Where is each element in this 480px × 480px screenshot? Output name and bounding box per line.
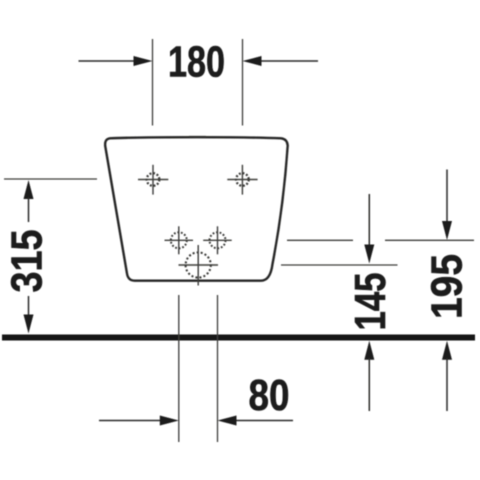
lower-right hole crosshair	[203, 226, 232, 254]
dim 80 right arrow	[218, 416, 294, 426]
dim 80 left arrow	[99, 416, 179, 426]
dim 180 extension line left	[152, 39, 154, 126]
dim 180 right arrow	[243, 56, 319, 66]
svg-text:145: 145	[346, 273, 395, 331]
dim 315 extension line top	[4, 178, 97, 180]
lower-left hole crosshair	[165, 226, 194, 254]
dim 180 left arrow	[79, 56, 153, 66]
dim 145 upper line with down arrow	[364, 194, 374, 264]
top rim accent	[189, 136, 206, 138]
dim 80 extension line right	[217, 295, 219, 442]
dim 195 extension line (holes level) right segment	[385, 239, 474, 241]
dim 315 bottom arrow (down)	[24, 296, 34, 334]
svg-text:315: 315	[3, 230, 52, 293]
svg-text:195: 195	[423, 254, 472, 319]
dim 80 extension line left	[178, 295, 180, 442]
dim 195 extension line (holes level) left segment	[287, 239, 353, 241]
dim 145 lower up-arrow below ground	[364, 341, 374, 411]
svg-text:180: 180	[168, 38, 225, 87]
drain hole crosshair	[179, 245, 219, 286]
ground line	[2, 335, 475, 341]
svg-text:80: 80	[249, 371, 290, 420]
dim 180 extension line right	[242, 39, 244, 126]
dim 195 upper line with down arrow	[442, 170, 452, 241]
upper-left fixing hole crosshair	[138, 165, 168, 195]
dim 195 lower up-arrow below ground	[442, 341, 452, 411]
bidet body outline	[105, 137, 288, 281]
upper-right fixing hole crosshair	[227, 165, 257, 195]
dim 145 extension line (drain level)	[281, 264, 398, 266]
dim 315 top arrow (up)	[24, 180, 34, 222]
